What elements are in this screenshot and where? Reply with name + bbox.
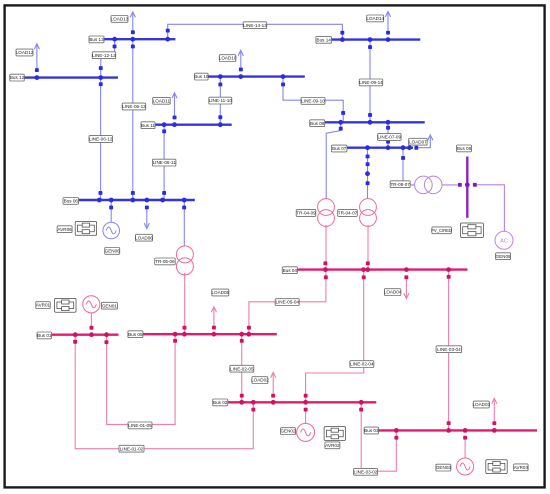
terminal GEN03 (463, 436, 467, 440)
terminal LINE-07-09 top (386, 126, 390, 130)
node Bus02/LINE-02-04 (303, 400, 308, 405)
terminal TR-04-09 lv (323, 261, 327, 265)
svg-text:LOAD13: LOAD13 (111, 17, 129, 22)
wire LINE-07-09 (387, 122, 389, 147)
node Bus05/LOAD05 (212, 332, 217, 337)
node Bus05/LINE-01-05 (173, 332, 178, 337)
label LOAD11 (153, 97, 171, 104)
svg-text:LINE-12-13: LINE-12-13 (92, 53, 116, 58)
terminal LINE-02-04 bottom (304, 394, 308, 398)
terminal TR-04-07 cubicle b (366, 162, 370, 166)
terminal LINE-14-13 right (340, 31, 344, 35)
terminal LOAD04 (404, 275, 408, 279)
label LOAD06 (135, 234, 153, 241)
wire TR-04-09 lower lead (325, 225, 327, 270)
label Bus 01 (37, 332, 52, 339)
wire TR-05-06 lower lead (184, 273, 186, 334)
terminal LINE-02-05 top (240, 339, 244, 343)
label Bus 05 (128, 331, 143, 338)
terminal LOAD14 (386, 31, 390, 35)
node Bus09/LINE-09-14 (368, 120, 373, 125)
terminal LINE-09-10 right (341, 111, 345, 115)
label Bus 03 (364, 427, 379, 434)
node Bus07/LOAD07 (407, 145, 412, 150)
AVR block symbol AVR06 (75, 222, 96, 236)
svg-text:LOAD06: LOAD06 (135, 235, 153, 240)
terminal LOAD11 (173, 116, 177, 120)
label LOAD04 (384, 289, 402, 296)
svg-text:Bus 02: Bus 02 (213, 400, 228, 405)
svg-text:LOAD02: LOAD02 (251, 378, 269, 383)
label Bus 12 (10, 74, 25, 81)
node Bus14/LINE-09-14 (368, 37, 373, 42)
terminal LINE-01-02 top (73, 340, 77, 344)
svg-text:Bus 04: Bus 04 (283, 268, 298, 273)
svg-text:LOAD12: LOAD12 (16, 50, 34, 55)
wire GEN02 lead (305, 411, 307, 424)
label Bus 13 (89, 36, 104, 43)
svg-text:PV_CIRED: PV_CIRED (431, 228, 452, 233)
terminal LINE-14-13 left (166, 29, 170, 33)
wire LINE-06-13 (132, 39, 134, 200)
AVR block symbol AVR02 (324, 427, 345, 441)
label AVR03 (514, 464, 529, 471)
junction TR-04-07 link (365, 171, 370, 176)
label Bus 04 (282, 267, 297, 274)
node Bus01/GEN01 (89, 332, 94, 337)
svg-text:AC: AC (500, 238, 508, 244)
svg-text:LOAD10: LOAD10 (219, 56, 237, 61)
load arrow LOAD13 (130, 12, 135, 30)
wire LINE-01-05 (107, 334, 176, 424)
svg-text:LINE-06-13: LINE-06-13 (122, 104, 146, 109)
svg-text:LINE-14-13: LINE-14-13 (243, 23, 267, 28)
label LOAD02 (251, 377, 269, 384)
label LINE-11-10 (209, 97, 233, 104)
label AVR06 (57, 226, 72, 233)
svg-text:TR-04-09: TR-04-09 (296, 211, 316, 216)
terminal TR-08-07 lv side (401, 156, 405, 160)
node Bus02/LINE-03-02 (359, 400, 364, 405)
terminal LINE-12-13 top (113, 45, 117, 49)
node Bus02/LINE-02-05 (239, 400, 244, 405)
node Bus04/TR-04-09 (323, 267, 328, 272)
svg-text:GEN06: GEN06 (105, 249, 121, 254)
label LOAD13 (111, 16, 129, 23)
label Bus 08 (457, 145, 472, 152)
terminal LINE-05-04 bottom (247, 326, 251, 330)
svg-text:Bus 11: Bus 11 (141, 123, 155, 128)
wire LINE-09-14 (369, 40, 371, 123)
bus Bus 07 (346, 146, 413, 148)
node Bus06/GEN06 (109, 198, 114, 203)
svg-text:GEN08: GEN08 (496, 254, 512, 259)
terminal LINE-02-05 bottom (240, 394, 244, 398)
svg-text:TR-05-06: TR-05-06 (155, 259, 175, 264)
generator GEN06 (103, 222, 120, 239)
transformer TR-05-06 (176, 246, 193, 275)
label LOAD03 (472, 401, 490, 408)
wire LINE-09-10 (283, 77, 343, 123)
label TR-04-09 (296, 210, 316, 217)
node Bus04/TR-04-07 (365, 267, 370, 272)
label TR-04-07 (338, 210, 358, 217)
load arrow LOAD02 (271, 372, 276, 393)
label GEN08 (496, 253, 512, 260)
wire PV feeder to AC generator (477, 185, 505, 231)
terminal LINE-05-04 top (324, 275, 328, 279)
node Bus13/LOAD13 (130, 37, 135, 42)
terminal LOAD12 (35, 68, 39, 72)
load arrow LOAD14 (385, 12, 390, 31)
label LINE-05-04 (275, 299, 299, 306)
node Bus06/LINE-06-12 (97, 198, 102, 203)
svg-text:LINE-06-11: LINE-06-11 (153, 160, 177, 165)
svg-text:LINE-02-05: LINE-02-05 (230, 366, 254, 371)
terminal LOAD05 (212, 326, 216, 330)
svg-text:LOAD14: LOAD14 (366, 16, 384, 21)
label LOAD10 (219, 55, 237, 62)
label LINE-03-04 (436, 346, 462, 353)
svg-text:Bus 05: Bus 05 (128, 332, 143, 337)
svg-text:LOAD11: LOAD11 (153, 98, 171, 103)
transformer TR-04-07 (360, 199, 377, 227)
node Bus05/LINE-05-04 (246, 332, 251, 337)
svg-text:Bus 01: Bus 01 (37, 333, 52, 338)
svg-text:LINE-07-09: LINE-07-09 (378, 135, 402, 140)
svg-text:LINE-09-14: LINE-09-14 (359, 80, 383, 85)
svg-text:Bus 14: Bus 14 (317, 37, 332, 42)
load arrow LOAD06 (144, 210, 149, 229)
bus Bus 10 (208, 75, 305, 77)
node Bus03/GEN03 (463, 428, 468, 433)
terminal LINE-06-13 top (131, 45, 135, 49)
terminal LOAD10 (239, 68, 243, 72)
terminal LINE-03-04 top (447, 275, 451, 279)
node Bus04/LINE-03-04 (446, 267, 451, 272)
wire feeder Bus09 to TR-04-09 (326, 122, 341, 199)
terminal LINE-11-10 bottom (218, 115, 222, 119)
terminal LOAD07 (414, 146, 418, 150)
wire LINE-14-13 (168, 24, 343, 39)
label LINE-02-05 (230, 365, 254, 372)
svg-text:Bus 10: Bus 10 (194, 74, 209, 79)
node Bus11/LINE-11-10 (218, 122, 223, 127)
node Bus01/LINE-01-02 (73, 332, 78, 337)
label LOAD05 (211, 289, 229, 296)
svg-text:LOAD05: LOAD05 (211, 290, 229, 295)
node Bus02/LOAD02 (271, 400, 276, 405)
load arrow LOAD12 (34, 44, 39, 68)
terminal LINE-11-10 top (218, 83, 222, 87)
svg-text:LOAD04: LOAD04 (384, 290, 402, 295)
terminal LINE-03-02 bottom (394, 436, 398, 440)
bus Bus 03 (379, 429, 537, 431)
svg-text:GEN03: GEN03 (436, 465, 452, 470)
bus Bus 13 (104, 38, 175, 40)
wire LINE-05-04 (249, 270, 326, 335)
generator GEN02 (297, 423, 315, 441)
label Bus 06 (63, 198, 79, 205)
node Bus09/TR-04-09 (338, 120, 343, 125)
terminal GEN01 (90, 326, 94, 330)
load arrow LOAD05 (211, 307, 216, 326)
wire LINE-06-11 (163, 125, 165, 200)
wire GEN03 lead (464, 439, 466, 458)
generator GEN03 (457, 458, 474, 475)
terminal LINE-12-13 bottom (99, 66, 103, 70)
node Bus07/TR-08-07 (401, 145, 406, 150)
node Bus13/LINE-14-13 (165, 37, 170, 42)
svg-text:AVR02: AVR02 (325, 443, 340, 448)
wire GEN06 lead (110, 200, 112, 222)
svg-text:GEN01: GEN01 (102, 303, 118, 308)
terminal GEN02 (304, 408, 308, 412)
terminal LINE-09-14 bottom (368, 113, 372, 117)
svg-text:LINE-05-04: LINE-05-04 (275, 300, 299, 305)
label LOAD12 (16, 49, 34, 56)
node Bus09/LINE-07-09 (386, 120, 391, 125)
wire LINE-01-02 (75, 335, 253, 449)
label Bus 11 (141, 122, 155, 129)
load arrow LOAD11 (172, 93, 177, 116)
node Bus10/LINE-09-10 (281, 74, 286, 79)
static generator GEN08 (AC) (495, 231, 513, 249)
wire TR-08-07 to Bus 08 (442, 184, 458, 186)
wire LINE-12-13 (101, 39, 115, 77)
label LINE-06-13 (122, 103, 146, 110)
label LOAD07 (409, 138, 428, 145)
node Bus05/LINE-02-05 (239, 332, 244, 337)
terminal LINE-09-14 top (368, 45, 372, 49)
svg-text:AVR06: AVR06 (57, 227, 72, 232)
label Bus 09 (310, 120, 325, 127)
svg-text:LINE-01-02: LINE-01-02 (120, 446, 144, 451)
label GEN02 (280, 428, 296, 435)
svg-text:TR-04-07: TR-04-07 (338, 211, 358, 216)
node Bus11/LINE-06-11 (162, 122, 167, 127)
terminal LINE-03-02 top (359, 408, 363, 412)
svg-text:AVR03: AVR03 (514, 465, 529, 470)
node Bus11/LOAD11 (172, 122, 177, 127)
node Bus14/LOAD14 (386, 37, 391, 42)
svg-text:Bus 13: Bus 13 (89, 37, 104, 42)
label LINE-09-14 (359, 79, 383, 86)
label TR-05-06 (155, 258, 176, 265)
terminal LINE-06-12 top (99, 82, 103, 86)
svg-text:LOAD03: LOAD03 (472, 402, 490, 407)
bus Bus 14 (332, 38, 421, 40)
node Bus10/LOAD10 (238, 74, 243, 79)
terminal LOAD06 (145, 206, 149, 210)
wire LINE-03-02 (361, 402, 396, 471)
svg-text:LINE-09-10: LINE-09-10 (301, 99, 325, 104)
svg-text:LOAD07: LOAD07 (409, 139, 427, 144)
node Bus02/LINE-01-02 (251, 400, 256, 405)
transformer TR-04-09 (318, 199, 335, 227)
bus Bus 02 (228, 401, 377, 403)
node Bus04/LOAD04 (404, 267, 409, 272)
svg-text:LINE-02-04: LINE-02-04 (350, 362, 374, 367)
terminal TR-04-07 lv (366, 261, 370, 265)
label Bus 14 (316, 36, 332, 43)
label Bus 07 (331, 145, 347, 152)
node Bus08 junction (465, 182, 470, 187)
wire TR-04-07 lower lead (367, 225, 369, 270)
node Bus05/TR-05-06 (182, 332, 187, 337)
label AVR02 (325, 442, 340, 449)
label TR-08-07 (390, 181, 410, 188)
load arrow LOAD10 (238, 50, 243, 67)
wire feeder Bus07 to TR-08-07 (403, 148, 415, 185)
label LINE-09-10 (301, 98, 325, 105)
generator GEN01 (83, 296, 100, 313)
terminal TR-04-07 hv (366, 181, 370, 185)
terminal LINE-02-04 top (362, 275, 366, 279)
label Bus 02 (213, 399, 228, 406)
bus Bus 06 (79, 199, 195, 201)
terminal LINE-06-12 bottom (99, 191, 103, 195)
PV controller symbol PV_CIRED (460, 223, 483, 238)
node Bus01/LINE-01-05 (104, 332, 109, 337)
node Bus07/LINE-07-09 (386, 145, 391, 150)
terminal TR-05-06 hv (182, 206, 186, 210)
terminal PV feeder (473, 183, 477, 187)
node Bus10/LINE-11-10 (218, 74, 223, 79)
label PV_CIRED (431, 227, 452, 234)
svg-text:TR-08-07: TR-08-07 (390, 182, 410, 187)
svg-text:LINE-01-05: LINE-01-05 (128, 423, 152, 428)
terminal LINE-06-11 bottom (162, 191, 166, 195)
terminal LINE-01-05 top (173, 339, 177, 343)
label LINE-14-13 (243, 22, 267, 29)
terminal TR-04-07 cubicle a (366, 155, 370, 159)
node Bus13/LINE-12-13 (112, 37, 117, 42)
label AVR01 (36, 302, 51, 309)
node Bus04/LINE-02-04 (361, 267, 366, 272)
bus Bus 11 (155, 123, 232, 125)
svg-text:LINE-11-10: LINE-11-10 (209, 98, 233, 103)
label LINE-06-12 (89, 136, 113, 143)
svg-text:Bus 06: Bus 06 (64, 199, 79, 204)
svg-text:GEN02: GEN02 (280, 429, 296, 434)
label LINE-02-04 (350, 361, 374, 368)
node Bus12/LINE-12-13 (98, 75, 103, 80)
terminal LINE-09-10 left (281, 83, 285, 87)
svg-text:LINE-06-12: LINE-06-12 (89, 137, 113, 142)
svg-text:LINE-03-04: LINE-03-04 (437, 347, 461, 352)
load arrow LOAD04 (404, 279, 409, 298)
svg-text:Bus 07: Bus 07 (332, 146, 347, 151)
AVR block symbol AVR03 (486, 460, 507, 474)
terminal LOAD02 (271, 394, 275, 398)
label LINE-12-13 (92, 52, 116, 59)
terminal LOAD03 (492, 421, 496, 425)
bus Bus 05 (143, 333, 277, 335)
wire TR-05-06 upper lead (183, 200, 185, 246)
svg-text:Bus 03: Bus 03 (364, 428, 379, 433)
bus Bus 04 (297, 268, 467, 270)
terminal GEN06 (109, 206, 113, 210)
wire LINE-02-05 (241, 334, 243, 402)
label GEN01 (101, 302, 117, 309)
label LINE-01-05 (128, 422, 152, 429)
node Bus14/LINE-14-13 (340, 37, 345, 42)
wire feeder Bus07 to TR-04-07 (367, 148, 369, 199)
node Bus03/LINE-03-04 (446, 428, 451, 433)
node Bus06/TR-05-06 (182, 198, 187, 203)
label GEN03 (436, 464, 452, 471)
label LINE-06-11 (152, 159, 176, 166)
node Bus07/TR-04-07 (365, 145, 370, 150)
terminal LINE-03-04 bottom (447, 421, 451, 425)
terminal LINE-01-02 bottom (251, 408, 255, 412)
terminal LINE-07-09 bottom (386, 140, 390, 144)
wire LINE-03-04 (448, 270, 450, 431)
terminal LINE-06-11 top (162, 129, 166, 133)
bus Bus 09 (325, 121, 425, 123)
svg-text:AVR01: AVR01 (36, 303, 51, 308)
svg-text:LINE-03-02: LINE-03-02 (354, 469, 378, 474)
node Bus06/LINE-06-13 (130, 198, 135, 203)
node Bus03/LOAD03 (492, 428, 497, 433)
label LINE-07-09 (378, 134, 402, 141)
svg-text:Bus 09: Bus 09 (310, 121, 325, 126)
terminal LINE-01-05 bottom (105, 340, 109, 344)
node Bus06/LINE-06-11 (160, 198, 165, 203)
wire LINE-11-10 (219, 77, 221, 125)
terminal LOAD13 (131, 30, 135, 34)
node Bus12/LOAD12 (35, 75, 40, 80)
svg-text:Bus 08: Bus 08 (457, 146, 472, 151)
terminal TR-05-06 lv (183, 326, 187, 330)
label GEN06 (105, 248, 121, 255)
load arrow LOAD03 (492, 398, 497, 421)
bus Bus 12 (24, 76, 118, 78)
transformer TR-08-07 (415, 176, 442, 194)
load arrow LOAD07 (418, 135, 433, 148)
label Bus 10 (194, 73, 209, 80)
wire LINE-02-04 (306, 270, 364, 403)
AVR block symbol AVR01 (55, 298, 76, 312)
wire GEN01 lead (90, 313, 92, 327)
terminal TR-08-07 hv (458, 183, 462, 187)
terminal TR-04-09 hv (339, 127, 343, 131)
node Bus06/LOAD06 (144, 198, 149, 203)
label LINE-01-02 (119, 445, 144, 452)
wire LINE-06-12 (100, 78, 102, 200)
terminal LINE-06-13 bottom (131, 191, 135, 195)
label LOAD14 (366, 15, 384, 22)
bus Bus 08 (466, 157, 468, 218)
bus Bus 01 (51, 334, 118, 336)
label LINE-03-02 (354, 468, 378, 475)
node Bus03/LINE-03-02 (394, 428, 399, 433)
svg-text:Bus 12: Bus 12 (10, 75, 25, 80)
